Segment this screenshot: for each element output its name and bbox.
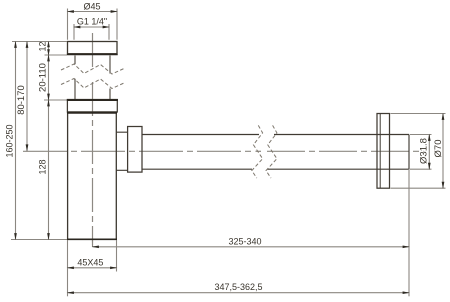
dim G1 1/4 extension lines [74,24,109,40]
dim 325-340 arrows [92,245,410,248]
top flange [68,42,118,54]
svg-text:160-250: 160-250 [5,124,15,157]
svg-text:347,5-362,5: 347,5-362,5 [214,282,262,292]
svg-text:128: 128 [38,159,48,174]
outlet nut [128,127,142,173]
dim 12 / 20-110 / 128 shared line [48,42,50,240]
compression nut [67,100,117,113]
svg-text:Ø31.8: Ø31.8 [419,138,430,164]
dim D70 line [442,114,444,189]
right extension vertical at pipe end [408,169,410,296]
bottom extension vertical at body left [67,240,69,296]
dim 325-340 line [93,246,410,248]
bottom extension vertical at body right [116,240,118,272]
tailpipe upper segment [75,56,110,74]
break symbol lower zigzag [61,79,124,89]
wall flange [377,114,390,189]
left extension line at flange top [12,41,67,43]
dim D31.8 arrows [428,134,431,170]
dim D31.8 line [428,135,430,170]
dim G1 1/4 arrows [73,26,110,29]
dim 45X45 line [68,267,117,269]
dim D45 arrows [67,10,118,13]
dim 80-170 line [26,42,28,151]
dim D70 arrows [442,113,445,189]
dim 347,5-362,5 arrows [67,291,410,294]
dim D45 extension lines [68,9,118,40]
pipe break right zigzag [266,125,277,178]
dim 80-170 arrows [26,41,29,152]
pipe end at wall [408,135,410,170]
left extension line at flange bottom [45,54,68,56]
pipe break left zigzag [252,125,263,178]
horizontal outlet pipe [142,135,409,170]
svg-text:12: 12 [38,41,48,51]
dim G1 1/4 line [74,26,109,28]
dim 20-110 arrows [47,54,50,101]
outlet stub [116,132,127,170]
break symbol upper zigzag [61,64,124,74]
dim 45X45 arrows [67,266,118,269]
dim D45 line [68,11,118,13]
dim 160-250 arrows [14,41,17,241]
dim 347,5-362,5 line [68,292,410,294]
dim 160-250 line [15,42,17,240]
horizontal centerline of outlet pipe [23,150,252,152]
dim 128 arrows [47,99,50,240]
left extension line at body bottom [11,239,67,241]
svg-text:45X45: 45X45 [77,257,103,267]
svg-text:325-340: 325-340 [228,236,261,246]
trap body [68,112,117,239]
dim D70 extension lines [391,114,446,189]
left extension line at nut top [44,99,67,101]
dim D31.8 extension lines [410,135,432,170]
tailpipe lower segment [75,79,110,100]
svg-text:G1 1/4": G1 1/4" [77,17,107,27]
dim 12 arrows [47,41,50,56]
svg-text:Ø45: Ø45 [83,2,100,12]
vertical centerline of tailpipe [92,33,94,245]
centerline extension below body [92,240,94,248]
svg-text:80-170: 80-170 [16,85,27,115]
svg-text:Ø70: Ø70 [433,140,444,158]
centerline dash inside pipe break [256,150,262,152]
svg-text:20-110: 20-110 [38,63,49,92]
